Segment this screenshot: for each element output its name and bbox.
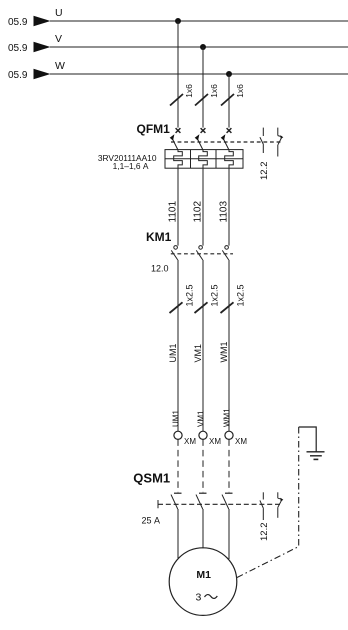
svg-text:UM1: UM1 [168, 343, 178, 362]
svg-text:WM1: WM1 [222, 408, 231, 427]
svg-text:05.9: 05.9 [8, 17, 28, 28]
svg-text:QFM1: QFM1 [137, 122, 171, 136]
svg-text:12.2: 12.2 [259, 523, 270, 542]
svg-text:UM1: UM1 [171, 410, 180, 427]
svg-text:1x6: 1x6 [209, 84, 219, 98]
svg-text:1102: 1102 [193, 201, 204, 223]
svg-text:1x6: 1x6 [184, 84, 194, 98]
svg-text:V: V [55, 33, 62, 45]
svg-text:VM1: VM1 [193, 344, 203, 363]
svg-text:U: U [55, 7, 63, 19]
svg-text:1x2.5: 1x2.5 [235, 284, 245, 306]
svg-text:XM: XM [209, 437, 221, 446]
svg-text:1103: 1103 [219, 201, 230, 223]
svg-text:1x2.5: 1x2.5 [184, 284, 194, 306]
svg-text:12.0: 12.0 [151, 263, 169, 273]
svg-text:12.2: 12.2 [259, 162, 270, 181]
svg-text:VM1: VM1 [196, 410, 205, 427]
svg-text:1x2.5: 1x2.5 [209, 284, 219, 306]
svg-text:WM1: WM1 [219, 342, 229, 363]
svg-text:3: 3 [196, 592, 202, 604]
svg-text:KM1: KM1 [146, 230, 172, 244]
svg-text:1,1–1,6 A: 1,1–1,6 A [113, 161, 149, 171]
svg-text:QSM1: QSM1 [133, 470, 170, 485]
svg-text:05.9: 05.9 [8, 43, 28, 54]
svg-text:05.9: 05.9 [8, 70, 28, 81]
svg-text:XM: XM [235, 437, 247, 446]
svg-text:W: W [55, 60, 65, 72]
svg-text:25 A: 25 A [142, 516, 161, 526]
svg-text:XM: XM [184, 437, 196, 446]
svg-text:M1: M1 [196, 569, 211, 581]
svg-text:1101: 1101 [168, 201, 179, 223]
svg-text:1x6: 1x6 [235, 84, 245, 98]
